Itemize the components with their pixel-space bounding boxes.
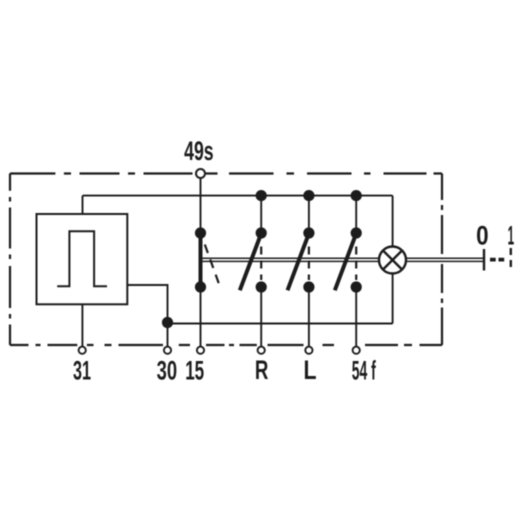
- wire: contact 54f bottom down to terminal 54f: [355, 287, 357, 347]
- terminal 15 (open circle): [197, 347, 204, 354]
- junction dot contact R pivot: [256, 227, 267, 238]
- position 0 tick mark (solid): [483, 249, 485, 271]
- junction dot rail 54f: [351, 190, 362, 201]
- svg-text:49s: 49s: [184, 136, 214, 166]
- svg-text:1: 1: [508, 221, 515, 251]
- wire: U1 bottom to terminal 31: [81, 304, 83, 346]
- wire: contact 1 bottom down to terminal 15: [200, 287, 202, 347]
- svg-text:0: 0: [476, 221, 489, 251]
- terminal 31 (open circle): [79, 347, 86, 354]
- terminal 54f (open circle): [353, 347, 360, 354]
- position 1 tick mark (dashed): [510, 248, 512, 272]
- svg-text:31: 31: [73, 356, 91, 386]
- wire: contact R bottom down to terminal R: [260, 287, 262, 347]
- enclosure border bottom edge (dash-dot): [10, 344, 442, 346]
- junction dot rail R: [256, 190, 267, 201]
- switch contact S1 alternate position (dashed): [205, 245, 221, 288]
- mechanical actuator bar (double line): [201, 258, 484, 261]
- switch contact L blade (open, tilted): [288, 234, 309, 291]
- junction dot contact 1 top: [195, 227, 206, 238]
- junction dot rail L: [303, 190, 314, 201]
- wire: rail dot down to contact 54f top: [355, 196, 357, 233]
- terminal 30 (open circle): [164, 347, 171, 354]
- junction dot contact R bottom: [256, 281, 267, 292]
- switch contact L closed position (dashed): [308, 247, 310, 281]
- wire: U1 right side to junction: [127, 285, 167, 324]
- switch contact R closed position (dashed): [260, 247, 262, 281]
- switch contact 54f blade (open, tilted): [335, 234, 356, 291]
- switch contact 54f closed position (dashed): [355, 247, 357, 281]
- wire: bottom rail from junction to lamp column: [168, 323, 393, 325]
- terminal R (open circle): [258, 347, 265, 354]
- wire: terminal 49s down to contact 1 top: [200, 179, 202, 234]
- junction dot contact 54f bottom: [351, 281, 362, 292]
- terminal 49s (open circle): [196, 169, 205, 178]
- enclosure border top edge (dash-dot): [10, 172, 442, 174]
- junction dot contact 1 bottom: [195, 281, 206, 292]
- svg-text:15: 15: [185, 356, 204, 386]
- enclosure border right edge (dash-dot): [441, 174, 443, 346]
- indicator lamp H1 (circle with X): [379, 247, 406, 274]
- enclosure border left edge (dash-dot): [9, 174, 11, 346]
- wire: junction down to terminal 30: [167, 324, 169, 347]
- junction dot contact 54f pivot: [351, 227, 362, 238]
- junction dot contact L bottom: [303, 281, 314, 292]
- wire: U1 top to top rail: [82, 196, 84, 214]
- wire: rail dot down to contact R top: [260, 196, 262, 233]
- junction dot at terminal 30 branch: [162, 317, 173, 328]
- junction dot contact L pivot: [303, 227, 314, 238]
- terminal L (open circle): [305, 347, 312, 354]
- svg-text:54 f: 54 f: [352, 356, 377, 386]
- switch contact R blade (open, tilted): [240, 234, 261, 291]
- switch contact S1 blade (closed, vertical): [199, 233, 203, 287]
- wire: rail dot down to contact L top: [308, 196, 310, 233]
- pulse waveform symbol inside U1: [57, 231, 107, 286]
- flasher unit U1 box: [37, 214, 128, 304]
- wire: contact L bottom down to terminal L: [308, 287, 310, 347]
- wire: top rail from U1 to lamp column: [83, 195, 393, 197]
- wire: lamp column vertical (rail down through lamp to bottom rail): [392, 196, 394, 324]
- svg-text:30: 30: [157, 356, 178, 386]
- actuator travel dashes between 0 and 1: [490, 258, 505, 262]
- svg-text:L: L: [304, 355, 317, 385]
- svg-text:R: R: [255, 355, 269, 385]
